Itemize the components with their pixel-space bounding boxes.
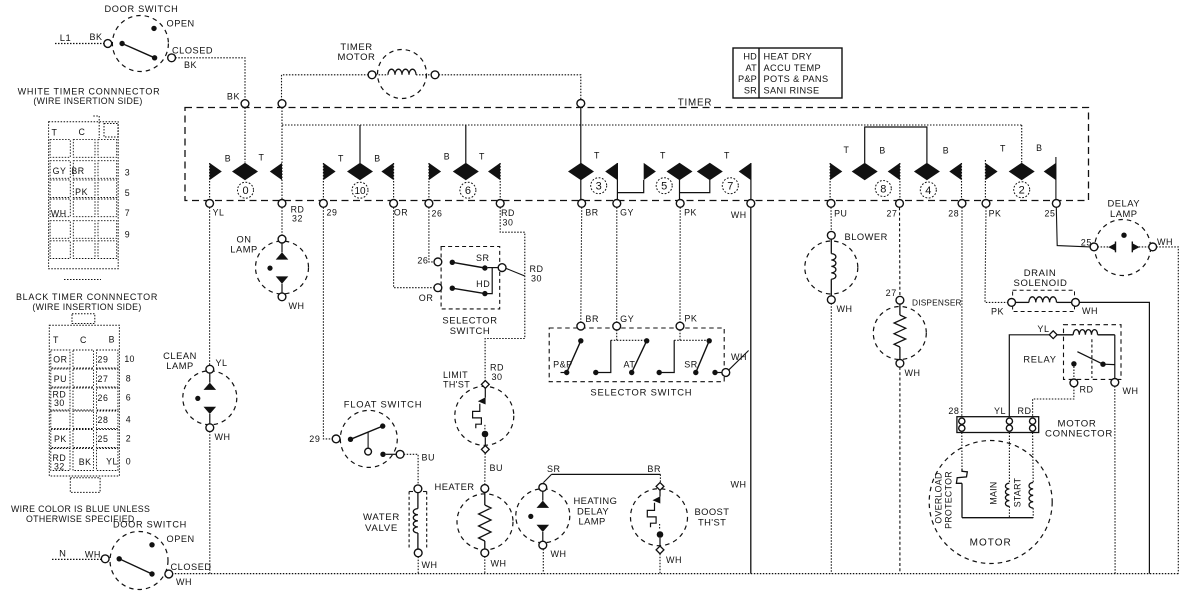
limit thermostat label xyxy=(443,370,470,390)
terminal label 25 xyxy=(1045,209,1056,219)
svg-text:BR: BR xyxy=(647,464,661,474)
wire cam 0 left to YL terminal xyxy=(209,163,211,200)
selector switch (upper) label xyxy=(442,315,497,337)
terminal label RD 32 xyxy=(291,205,305,224)
selector fixed contact 3 xyxy=(712,370,722,375)
svg-text:MAIN: MAIN xyxy=(989,481,999,504)
svg-text:29: 29 xyxy=(327,208,338,218)
wire label WH xyxy=(551,549,567,559)
label SR xyxy=(476,253,490,263)
svg-text:AT: AT xyxy=(746,63,758,73)
timer top terminal BK xyxy=(241,100,249,108)
svg-text:WH: WH xyxy=(1082,306,1098,316)
svg-text:WH: WH xyxy=(215,432,231,442)
white connector row 9 xyxy=(125,230,130,240)
wire cam 3 right to GY terminal with bridge to cam 5 xyxy=(617,163,643,200)
svg-text:POTS & PANS: POTS & PANS xyxy=(764,74,829,84)
motor connector pin 28 xyxy=(959,418,965,431)
wire heater to neutral rail xyxy=(484,556,486,573)
wire label 25 xyxy=(1081,237,1092,247)
wire OR timer to selector HD input xyxy=(394,207,435,288)
cam 0 label B xyxy=(225,154,231,164)
wire cam 7 right to WH terminal xyxy=(750,163,752,200)
wire limit thermostat to heater xyxy=(484,453,486,485)
svg-text:29: 29 xyxy=(98,355,109,365)
wire 26 timer to selector SR input xyxy=(429,207,434,262)
wire label SR xyxy=(547,464,561,474)
wire 28 timer to motor connector xyxy=(961,207,963,417)
wire label 29 xyxy=(309,434,320,444)
boost thermostat element xyxy=(647,490,663,547)
svg-text:PK: PK xyxy=(684,208,697,218)
svg-text:P&P: P&P xyxy=(738,74,757,84)
svg-text:28: 28 xyxy=(948,406,959,416)
wire heating delay lamp to boost thermostat xyxy=(552,473,661,475)
wire label WH xyxy=(1082,306,1098,316)
svg-text:OR: OR xyxy=(419,293,434,303)
cam 2 label T xyxy=(1000,144,1006,154)
drain solenoid left terminal xyxy=(1008,299,1016,307)
terminal label PK xyxy=(684,208,697,218)
wire label RD 30 at limit thermostat xyxy=(490,363,504,383)
wire L1 to door switch xyxy=(55,43,105,45)
svg-text:PK: PK xyxy=(684,314,697,324)
blower top terminal xyxy=(827,231,835,239)
svg-text:WH: WH xyxy=(491,559,507,569)
white connector row PK 5 xyxy=(75,187,130,198)
svg-text:WATER: WATER xyxy=(363,512,400,523)
svg-text:B: B xyxy=(225,154,231,164)
cam 0 label T xyxy=(259,153,265,163)
water valve coil xyxy=(413,492,418,549)
door switch upper common contact xyxy=(119,41,124,46)
svg-text:28: 28 xyxy=(98,415,109,425)
selector bridge 2 (PK) xyxy=(674,330,709,341)
pin label YL xyxy=(994,406,1006,416)
svg-text:3: 3 xyxy=(125,168,130,178)
float switch pivot xyxy=(348,437,353,442)
svg-text:28: 28 xyxy=(948,209,959,219)
motor label xyxy=(970,538,1012,549)
svg-text:8: 8 xyxy=(880,183,886,195)
svg-text:MOTOR: MOTOR xyxy=(970,538,1012,549)
selector link 2 xyxy=(659,340,674,372)
motor connector pin RD xyxy=(1030,418,1036,431)
heating delay lamp element xyxy=(528,484,549,549)
selector switch (lower) enclosure xyxy=(549,328,724,382)
door switch upper OPEN contact xyxy=(151,26,156,31)
timer enclosure (dashed) xyxy=(185,108,1089,201)
wire label 27 xyxy=(886,288,897,298)
svg-text:T: T xyxy=(724,151,730,161)
svg-text:30: 30 xyxy=(503,218,514,228)
svg-text:PK: PK xyxy=(991,306,1004,316)
svg-text:30: 30 xyxy=(491,372,502,382)
white connector header T C xyxy=(52,127,86,138)
svg-text:25: 25 xyxy=(98,434,109,444)
svg-text:C: C xyxy=(79,127,86,137)
terminal label PU xyxy=(834,209,847,219)
selector SR blade xyxy=(452,262,485,268)
wire label 28 xyxy=(948,406,959,416)
door switch lower OPEN contact xyxy=(149,542,154,547)
svg-text:WH: WH xyxy=(666,555,682,565)
selector GY terminal xyxy=(613,322,621,330)
heating delay lamp label xyxy=(574,495,618,527)
wire label RD 30 xyxy=(529,264,543,284)
svg-text:YL: YL xyxy=(106,457,118,467)
svg-text:2: 2 xyxy=(1019,185,1025,197)
cam 4 label B xyxy=(943,146,949,156)
drain solenoid right terminal xyxy=(1072,299,1080,307)
svg-text:HD: HD xyxy=(476,279,490,289)
wire label WH xyxy=(731,352,747,362)
motor body xyxy=(929,441,1052,564)
boost thermostat body xyxy=(631,489,688,546)
door switch (upper) body xyxy=(112,16,168,72)
float switch label xyxy=(344,399,423,410)
svg-text:8: 8 xyxy=(126,374,131,384)
cam 6 label T xyxy=(479,152,485,162)
relay contact link to RD terminal xyxy=(1073,367,1075,380)
wire label WH xyxy=(215,432,231,442)
door switch lower output terminal xyxy=(165,570,173,578)
wire timer motor to timer (right) xyxy=(439,75,581,100)
dispenser top terminal xyxy=(896,296,904,304)
svg-text:VALVE: VALVE xyxy=(365,523,398,534)
selector fixed contact 1 xyxy=(593,370,598,375)
wire cam 2 right to 25 terminal xyxy=(1055,157,1057,200)
wire label WH xyxy=(905,368,921,378)
delay lamp right terminal xyxy=(1149,243,1157,251)
svg-text:LAMP: LAMP xyxy=(230,245,258,255)
limit thermostat top terminal xyxy=(481,381,489,389)
wire label YL xyxy=(1037,324,1049,334)
svg-text:OPEN: OPEN xyxy=(167,19,195,29)
svg-text:GY: GY xyxy=(620,208,634,218)
svg-text:BR: BR xyxy=(585,314,599,324)
svg-text:T: T xyxy=(52,128,58,138)
delay lamp body xyxy=(1095,220,1151,276)
svg-text:CLOSED: CLOSED xyxy=(171,562,212,572)
svg-text:0: 0 xyxy=(126,457,131,467)
wire PU timer to blower xyxy=(830,207,832,231)
svg-text:32: 32 xyxy=(54,462,65,472)
wire label PK xyxy=(684,314,697,324)
selector PK terminal xyxy=(676,322,684,330)
relay RD terminal xyxy=(1070,379,1078,387)
svg-text:BU: BU xyxy=(490,463,504,473)
svg-text:DISPENSER: DISPENSER xyxy=(912,297,962,307)
svg-text:T: T xyxy=(259,153,265,163)
wire PK timer to selector xyxy=(679,207,681,322)
white connector bottom tab xyxy=(64,279,101,281)
svg-text:25: 25 xyxy=(1045,209,1056,219)
timer motor body xyxy=(378,50,427,99)
wire label RD xyxy=(1080,385,1094,395)
svg-text:(WIRE INSERTION SIDE): (WIRE INSERTION SIDE) xyxy=(33,96,142,106)
wire timer motor to timer (left) xyxy=(282,75,369,100)
svg-text:LIMIT: LIMIT xyxy=(443,370,468,380)
svg-text:T: T xyxy=(594,151,600,161)
door switch lower blade xyxy=(119,559,152,574)
timer label xyxy=(678,98,712,109)
svg-text:WH: WH xyxy=(51,209,67,219)
svg-text:4: 4 xyxy=(925,185,931,197)
svg-text:ACCU TEMP: ACCU TEMP xyxy=(764,63,822,73)
svg-text:TH'ST: TH'ST xyxy=(443,380,470,390)
float switch output link xyxy=(386,453,397,455)
svg-text:AT: AT xyxy=(624,360,636,370)
boost thermostat label xyxy=(695,506,730,527)
wire 27 timer to dispenser xyxy=(899,207,901,296)
cam 10 label T xyxy=(338,154,344,164)
wire 28 pin to overload protector xyxy=(961,433,963,469)
heating delay lamp body xyxy=(516,489,570,543)
svg-text:B: B xyxy=(1036,143,1042,153)
float switch NO terminal xyxy=(365,448,372,455)
svg-text:26: 26 xyxy=(432,209,443,219)
svg-text:LAMP: LAMP xyxy=(166,361,194,371)
overload protector element xyxy=(956,469,967,484)
wire clean lamp to neutral rail xyxy=(209,431,211,573)
svg-text:26: 26 xyxy=(98,393,109,403)
svg-text:SR: SR xyxy=(547,464,561,474)
svg-text:4: 4 xyxy=(126,415,131,425)
svg-text:29: 29 xyxy=(309,434,320,444)
svg-text:FLOAT SWITCH: FLOAT SWITCH xyxy=(344,399,423,410)
relay WH terminal xyxy=(1111,379,1119,387)
label CLOSED xyxy=(171,562,212,572)
svg-text:SELECTOR SWITCH: SELECTOR SWITCH xyxy=(590,387,692,398)
white connector row WH 7 xyxy=(51,208,130,219)
svg-text:32: 32 xyxy=(292,214,303,224)
svg-text:27: 27 xyxy=(98,374,109,384)
svg-text:PK: PK xyxy=(54,434,67,444)
svg-text:SR: SR xyxy=(744,85,757,95)
blower body xyxy=(805,241,858,294)
svg-text:(WIRE INSERTION SIDE): (WIRE INSERTION SIDE) xyxy=(32,302,141,312)
terminal label BR xyxy=(585,208,598,218)
svg-text:YL: YL xyxy=(994,406,1006,416)
selector RD-30 output terminal xyxy=(498,264,506,272)
wire PK timer to drain solenoid xyxy=(985,207,1008,302)
label CLOSED xyxy=(172,45,213,55)
svg-text:T: T xyxy=(1000,144,1006,154)
selector SR contact xyxy=(450,260,455,265)
door switch lower input terminal xyxy=(101,555,109,563)
door switch upper blade xyxy=(122,44,155,58)
heater bottom terminal xyxy=(481,549,489,557)
door switch (lower, N side) label xyxy=(113,520,187,530)
legend text HD HEAT DRY xyxy=(743,52,812,62)
svg-text:RD: RD xyxy=(529,264,543,274)
start winding xyxy=(1029,433,1033,518)
svg-text:LAMP: LAMP xyxy=(579,516,606,527)
water valve bottom terminal xyxy=(414,549,422,557)
riser to cam 6 xyxy=(465,125,467,163)
door switch upper CLOSED contact xyxy=(152,55,157,60)
wire cam 8 left to PU terminal xyxy=(829,163,831,200)
svg-text:OR: OR xyxy=(394,208,408,218)
wire RD-32 timer to on lamp xyxy=(281,207,283,235)
dispenser body xyxy=(873,307,926,360)
svg-text:6: 6 xyxy=(465,185,471,197)
svg-text:N: N xyxy=(59,548,66,559)
drain solenoid label xyxy=(1014,268,1068,289)
svg-text:BK: BK xyxy=(184,60,197,70)
svg-text:WH: WH xyxy=(422,560,438,570)
selector switch (lower) label xyxy=(590,387,692,398)
timer motor right terminal xyxy=(431,71,439,79)
terminal label 27 xyxy=(887,209,898,219)
svg-text:PU: PU xyxy=(834,209,847,219)
svg-text:9: 9 xyxy=(125,230,130,240)
wire cam 8 right to 27 terminal xyxy=(899,163,901,200)
svg-text:WH: WH xyxy=(905,368,921,378)
wire dispenser to neutral rail xyxy=(899,367,901,574)
terminal label GY xyxy=(620,208,634,218)
selector switch (upper) enclosure xyxy=(441,247,500,309)
svg-text:BLACK TIMER CONNNECTOR: BLACK TIMER CONNNECTOR xyxy=(16,292,158,302)
cam 3 label T xyxy=(594,151,600,161)
relay armature to WH side xyxy=(1103,363,1115,365)
svg-text:T: T xyxy=(53,335,59,345)
svg-text:B: B xyxy=(444,152,450,162)
relay contact fixed xyxy=(1071,361,1076,366)
svg-text:WH: WH xyxy=(1123,386,1139,396)
boost thermostat bottom terminal xyxy=(656,546,664,554)
svg-text:B: B xyxy=(879,146,885,156)
cam 2 xyxy=(985,163,1056,198)
wire BR timer to selector xyxy=(580,207,583,322)
float switch input terminal xyxy=(332,435,340,443)
svg-text:HEATER: HEATER xyxy=(435,481,475,492)
wire RD-30 timer to selector output node xyxy=(485,207,525,381)
wire label 26 xyxy=(417,256,428,266)
timer internal bus xyxy=(282,124,1022,126)
cam 5 label T xyxy=(660,151,666,161)
wire float switch to water valve xyxy=(404,454,418,485)
clean lamp label xyxy=(163,351,197,371)
selector fixed contact 2 xyxy=(657,370,662,375)
heater body xyxy=(457,494,513,550)
overload protector label xyxy=(934,471,954,529)
wire label WH xyxy=(666,555,682,565)
cam 6 label B xyxy=(444,152,450,162)
svg-text:CONNECTOR: CONNECTOR xyxy=(1045,429,1113,440)
svg-text:10: 10 xyxy=(354,186,366,197)
delay lamp element xyxy=(1098,233,1150,253)
door switch lower common contact xyxy=(117,556,122,561)
svg-text:TH'ST: TH'ST xyxy=(698,516,726,527)
svg-text:SELECTOR: SELECTOR xyxy=(442,315,497,326)
svg-text:B: B xyxy=(943,146,949,156)
door switch (lower) body xyxy=(110,532,168,590)
selector bridge 1 (GY) xyxy=(611,330,647,341)
node N xyxy=(59,548,66,559)
float switch upper contact xyxy=(380,423,385,428)
float switch output terminal xyxy=(396,450,404,458)
terminal label YL xyxy=(213,208,225,218)
cam 10 xyxy=(323,163,393,199)
svg-text:B: B xyxy=(109,335,115,345)
svg-text:RD: RD xyxy=(490,363,504,373)
svg-text:L1: L1 xyxy=(60,32,72,43)
relay enclosure (dashed) xyxy=(1064,325,1122,380)
svg-text:RD: RD xyxy=(1017,406,1031,416)
wire bus drop to cam 0 / RD-32 line xyxy=(245,108,282,200)
svg-text:BU: BU xyxy=(422,452,436,462)
selector SR input terminal xyxy=(434,258,442,266)
relay coil xyxy=(1057,330,1115,335)
label OPEN xyxy=(167,534,195,544)
svg-text:LAMP: LAMP xyxy=(1110,208,1138,219)
wire water valve to neutral rail xyxy=(417,557,419,574)
selector SR output contact xyxy=(482,265,487,270)
white timer connector title xyxy=(18,87,161,107)
wire delay lamp to neutral rail xyxy=(1156,247,1178,574)
blower coil xyxy=(831,239,836,296)
door switch (upper, L1 side) label xyxy=(104,4,178,14)
wire label WH xyxy=(176,577,192,587)
on lamp body xyxy=(256,241,309,294)
cam 2 label B xyxy=(1036,143,1042,153)
water valve top terminal xyxy=(414,485,422,493)
wire cam 4 right to 28 terminal xyxy=(961,163,963,200)
svg-text:WH: WH xyxy=(731,210,747,220)
svg-text:DOOR SWITCH: DOOR SWITCH xyxy=(104,4,178,14)
svg-text:SR: SR xyxy=(684,360,698,370)
svg-text:30: 30 xyxy=(531,274,542,284)
terminal label RD 30 xyxy=(501,208,515,228)
selector HD blade xyxy=(452,288,485,293)
start winding label xyxy=(1012,477,1022,507)
selector SR blade xyxy=(696,341,709,373)
wire cam 10 left to 29 terminal xyxy=(322,163,324,200)
svg-text:27: 27 xyxy=(887,209,898,219)
overload protector output xyxy=(961,483,963,517)
wire cam 6 left to 26 terminal xyxy=(428,163,430,200)
wire SR stub to heating delay lamp xyxy=(543,474,551,482)
svg-text:GY: GY xyxy=(620,314,634,324)
timer top terminal (timer motor right) xyxy=(577,100,585,108)
delay lamp label xyxy=(1108,198,1141,220)
terminal label OR xyxy=(394,208,408,218)
relay coil to WH terminal xyxy=(1114,335,1116,379)
wire selector WH output to WH line xyxy=(729,351,749,371)
wire label BU xyxy=(422,452,436,462)
svg-text:26: 26 xyxy=(417,256,428,266)
dispenser label xyxy=(912,297,962,307)
svg-text:YL: YL xyxy=(213,208,225,218)
riser to cam 10 xyxy=(359,125,361,163)
selector HD input terminal xyxy=(434,284,442,292)
clean lamp element xyxy=(195,365,216,431)
selector P&P blade xyxy=(567,341,581,373)
svg-text:SANI RINSE: SANI RINSE xyxy=(764,85,820,95)
svg-text:7: 7 xyxy=(727,181,733,193)
svg-text:27: 27 xyxy=(886,288,897,298)
svg-text:ON: ON xyxy=(236,235,251,245)
limit thermostat body xyxy=(455,386,514,445)
svg-text:YL: YL xyxy=(216,358,228,368)
wire color note xyxy=(11,504,150,524)
heater top terminal xyxy=(481,485,489,493)
float switch output contact xyxy=(380,452,385,457)
wire WH timer to neutral rail xyxy=(750,207,752,573)
wire 25 timer to delay lamp xyxy=(1056,207,1090,247)
